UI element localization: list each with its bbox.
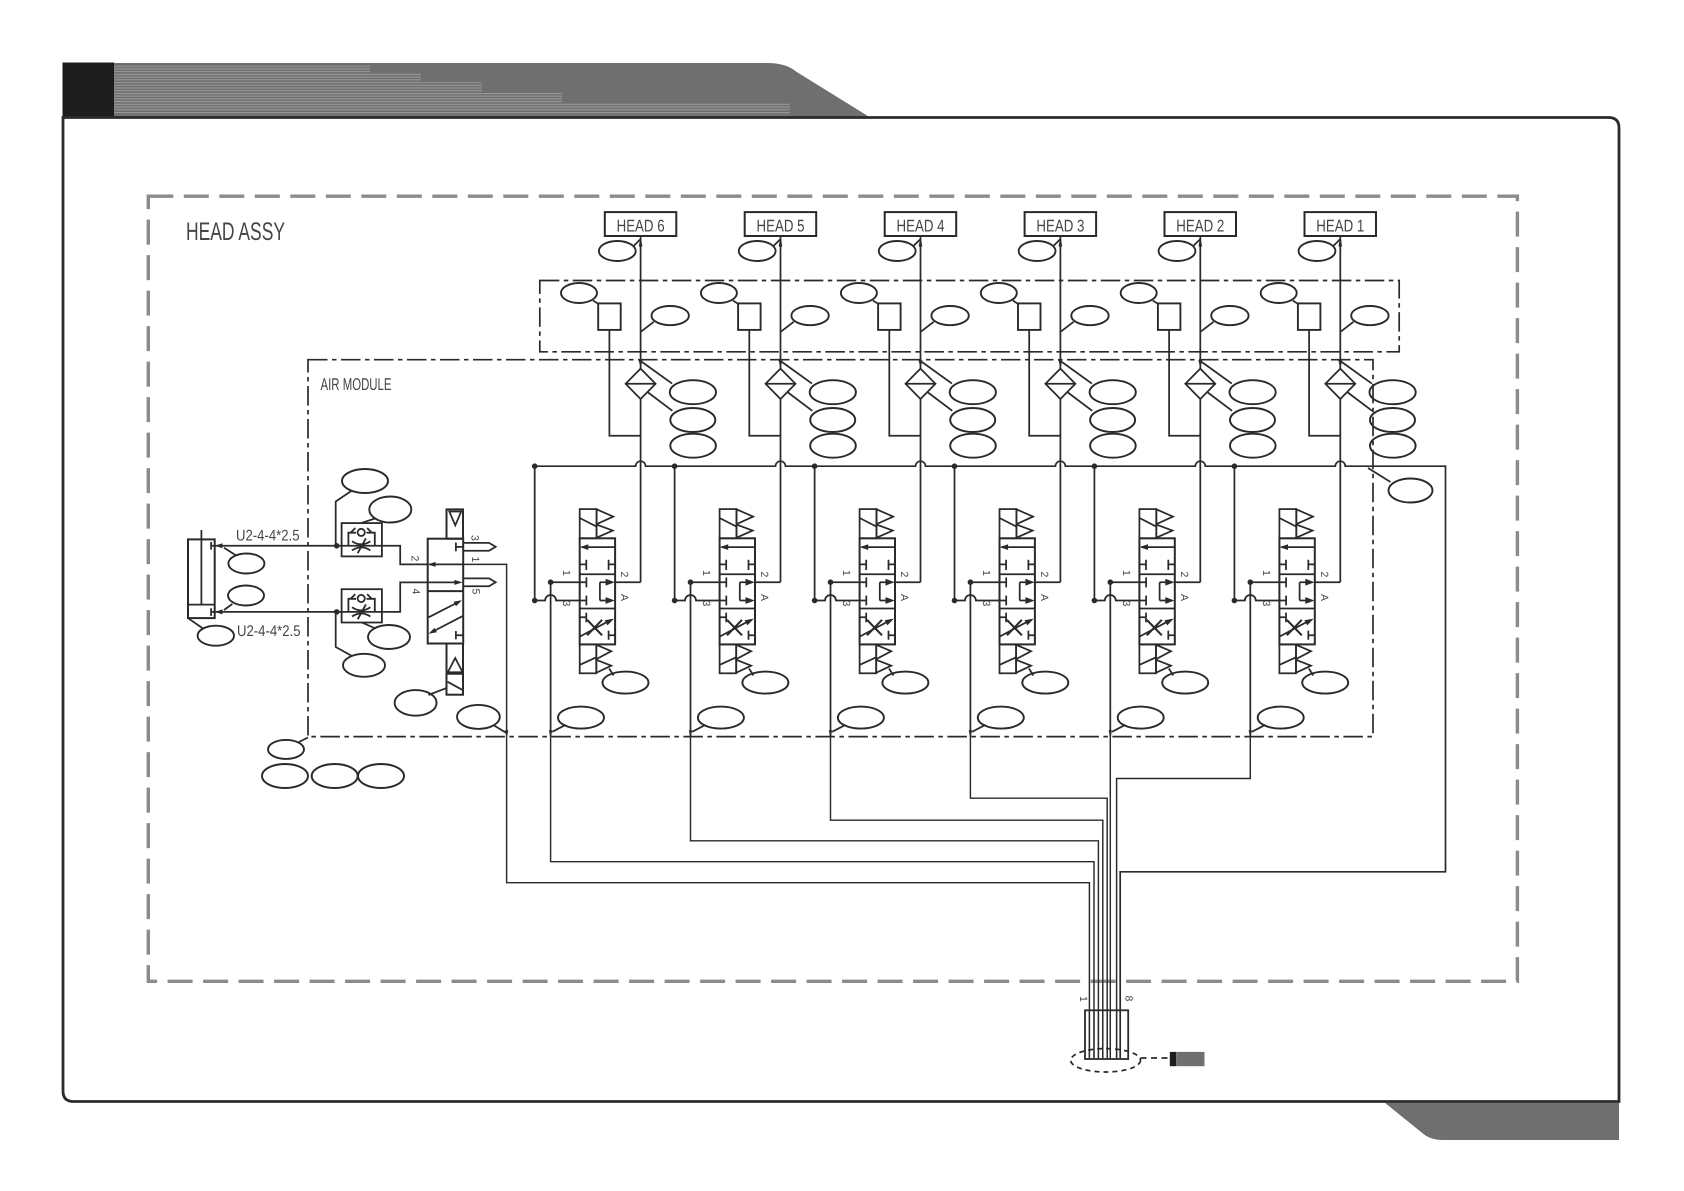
svg-text:2: 2 <box>409 556 421 562</box>
svg-text:HEAD 1: HEAD 1 <box>1316 217 1364 236</box>
svg-text:1: 1 <box>469 557 481 563</box>
svg-text:8: 8 <box>1123 996 1135 1002</box>
svg-text:HEAD 2: HEAD 2 <box>1176 217 1224 236</box>
svg-text:HEAD 6: HEAD 6 <box>617 217 665 236</box>
svg-text:1: 1 <box>1077 996 1089 1002</box>
svg-text:3: 3 <box>469 535 481 541</box>
svg-text:HEAD ASSY: HEAD ASSY <box>186 218 285 246</box>
svg-text:5: 5 <box>470 589 482 595</box>
svg-text:HEAD 4: HEAD 4 <box>897 217 945 236</box>
svg-text:HEAD 3: HEAD 3 <box>1036 217 1084 236</box>
svg-text:U2-4-4*2.5: U2-4-4*2.5 <box>237 623 301 640</box>
svg-text:U2-4-4*2.5: U2-4-4*2.5 <box>236 528 300 545</box>
svg-text:4: 4 <box>410 589 422 595</box>
svg-text:AIR MODULE: AIR MODULE <box>321 375 392 394</box>
svg-text:HEAD 5: HEAD 5 <box>757 217 805 236</box>
